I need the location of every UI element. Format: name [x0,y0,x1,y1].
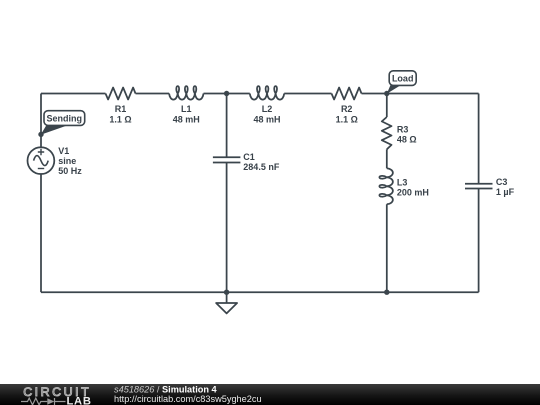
wire below L3 [386,204,388,292]
svg-text:R2: R2 [341,104,353,114]
svg-text:1.1 Ω: 1.1 Ω [336,115,358,125]
Sending flag tail [41,125,69,135]
logo waveform resistor [21,398,47,405]
svg-text:R1: R1 [115,104,127,114]
V1 minus sign [38,168,44,170]
svg-text:R3: R3 [397,124,409,134]
wire C1 branch lower [226,163,228,293]
capacitor C3 [465,184,493,189]
svg-text:L3: L3 [397,178,408,188]
inductor L3 [379,168,392,204]
resistor R3 [382,117,392,149]
V1 sine wave [34,156,49,166]
svg-text:C1: C1 [243,152,255,162]
wire R3 branch upper [386,94,388,118]
svg-text:sine: sine [58,156,76,166]
inductor L2 [250,86,284,99]
Load flag box [389,71,416,86]
wire C1 branch upper [226,94,228,158]
node dot Sending point [38,132,43,137]
wire top rail segment R1-L1 [136,93,170,95]
svg-text:48 mH: 48 mH [253,115,280,125]
svg-text:1.1 Ω: 1.1 Ω [109,115,131,125]
resistor R2 [332,88,362,100]
ground stub [226,292,228,303]
wire between R3 and L3 [386,149,388,168]
svg-text:Sending: Sending [47,113,83,123]
resistor R1 [106,88,136,100]
wire top rail segment R2-right [362,93,479,95]
svg-text:L1: L1 [181,104,192,114]
wire C3 branch lower [478,189,480,293]
svg-text:48 mH: 48 mH [173,115,200,125]
svg-text:L2: L2 [262,104,273,114]
node dot bottom right junction [384,290,389,295]
node dot ground junction [224,290,229,295]
V1 plus sign [38,149,44,155]
voltage source V1 circle [28,147,55,174]
svg-text:48 Ω: 48 Ω [397,134,417,144]
svg-text:Load: Load [392,73,414,83]
svg-text:1 µF: 1 µF [496,187,515,197]
ground triangle [216,303,237,313]
node dot Load junction [384,91,389,96]
wire left vertical above V1 [40,94,42,148]
Load flag tail [387,85,401,94]
wire bottom rail [41,291,479,293]
node dot C1 top junction [224,91,229,96]
wire top rail segment left [41,93,106,95]
wire C3 branch upper [478,94,480,184]
wire top rail segment L1-L2 [204,93,250,95]
svg-text:50 Hz: 50 Hz [58,166,82,176]
wire top rail segment L2-R2 [284,93,331,95]
svg-text:V1: V1 [58,146,69,156]
Sending flag box [44,111,85,126]
inductor L1 [169,86,203,99]
footer bar [0,384,540,405]
logo diode [47,398,54,404]
capacitor C1 [213,157,241,162]
svg-text:C3: C3 [496,177,508,187]
svg-text:200 mH: 200 mH [397,188,429,198]
wire left vertical below V1 [40,174,42,292]
svg-text:284.5 nF: 284.5 nF [243,162,280,172]
